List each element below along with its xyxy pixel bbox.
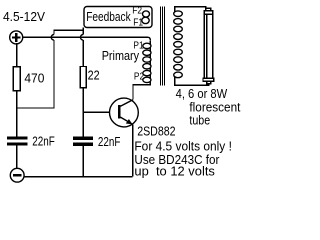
wire: capacitor C1 to negative terminal bbox=[16, 146, 18, 169]
svg-text:22nF: 22nF bbox=[98, 135, 121, 149]
svg-text:up to 12 volts: up to 12 volts bbox=[134, 164, 215, 179]
label 22nF (C1) bbox=[32, 135, 55, 149]
wire: + terminal down to resistor 470 bbox=[16, 43, 18, 67]
feedback winding label box bbox=[84, 7, 152, 28]
tube label bbox=[176, 87, 241, 127]
resistor R1 470 bbox=[13, 67, 20, 91]
fluorescent tube bbox=[203, 8, 214, 83]
primary winding labels bbox=[102, 40, 145, 83]
transistor Q1 2SD882 bbox=[110, 98, 139, 127]
wire: secondary top to tube top bbox=[175, 7, 206, 14]
wire: 0V bottom rail bbox=[24, 176, 133, 178]
svg-text:tube: tube bbox=[189, 113, 210, 127]
wire: emitter down to 0V rail bbox=[132, 124, 134, 176]
battery negative terminal bbox=[10, 168, 24, 182]
wire V1: from H1 down to 470/C1 junction, hop over +V rail bbox=[53, 29, 55, 34]
primary winding right connector bbox=[149, 41, 151, 80]
wire: +V rail from + terminal to primary P1 bbox=[23, 36, 148, 38]
wire: node link H1 from V1 to V2 bbox=[54, 29, 83, 31]
svg-text:Feedback: Feedback bbox=[86, 9, 131, 24]
feedback winding loops F2-F1 bbox=[143, 11, 150, 17]
label 22 bbox=[88, 69, 100, 83]
transformer core bbox=[160, 7, 164, 86]
svg-text:4, 6 or 8W: 4, 6 or 8W bbox=[176, 87, 228, 101]
svg-text:F2: F2 bbox=[132, 5, 142, 16]
wire V2: from feedback box corner down to resistor 22, hop over +V rail bbox=[82, 28, 84, 35]
resistor R2 22 bbox=[80, 67, 86, 88]
wire: base node to transistor base bbox=[83, 111, 118, 113]
supply voltage label "4.5-12V" bbox=[3, 10, 46, 24]
primary winding loops P1-P2 bbox=[143, 43, 151, 82]
secondary winding loops bbox=[174, 11, 183, 78]
label 470 bbox=[24, 71, 44, 85]
battery positive terminal bbox=[10, 31, 23, 44]
note text bbox=[134, 138, 232, 178]
wire: resistor 470 to capacitor C1 bbox=[16, 91, 18, 136]
tube inner left edge line bbox=[206, 15, 208, 79]
capacitor C2 22nF plates bbox=[73, 137, 93, 146]
label 2SD882 bbox=[137, 124, 175, 139]
svg-text:2SD882: 2SD882 bbox=[137, 124, 175, 139]
wire: secondary bottom to tube bottom bbox=[175, 75, 209, 85]
svg-text:22nF: 22nF bbox=[32, 135, 55, 149]
wire: collector up to primary P2 (right connector, horizontal, drop) bbox=[133, 80, 150, 100]
svg-text:470: 470 bbox=[24, 71, 44, 85]
wire: capacitor C2 to 0V rail bbox=[82, 146, 84, 177]
svg-text:22: 22 bbox=[88, 69, 100, 83]
capacitor C1 22nF plates bbox=[7, 136, 28, 145]
label 22nF (C2) bbox=[98, 135, 121, 149]
svg-text:4.5-12V: 4.5-12V bbox=[3, 10, 46, 24]
wire: resistor 22 down to capacitor C2 / base node bbox=[82, 88, 84, 137]
